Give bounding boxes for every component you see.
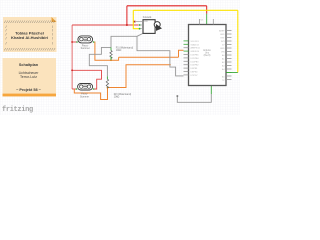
svg-text:VIN: VIN bbox=[221, 52, 225, 54]
right pin labels bbox=[219, 30, 225, 83]
svg-text:D11/PB3: D11/PB3 bbox=[191, 61, 200, 63]
IC center text bbox=[203, 49, 212, 57]
label U2 bbox=[143, 16, 152, 19]
wire red vcc drop to IC top pin bbox=[206, 6, 208, 14]
wire red stub to P1 left pin bbox=[72, 41, 77, 43]
piezo P1 bbox=[76, 36, 94, 43]
wire orange rail to IC y57.2 bbox=[119, 56, 179, 58]
left pins bbox=[184, 41, 189, 75]
junction red at 72.1,70.3 bbox=[71, 69, 73, 71]
junction orange at R2 bottom bbox=[107, 87, 109, 89]
wire yellow right vertical x237.8 bbox=[237, 10, 239, 72]
wire yellow horizontal y10.3 bbox=[133, 9, 238, 11]
junction red at 72.1,42 bbox=[71, 41, 73, 43]
svg-text:Schaltplan: Schaltplan bbox=[19, 63, 39, 67]
pin stub top 2 bbox=[212, 19, 214, 25]
piezo P2 bbox=[76, 84, 95, 91]
svg-text:SCL/D13: SCL/D13 bbox=[191, 41, 200, 43]
wire orange loop R2 bottom to P2 bbox=[74, 88, 107, 100]
wire gray staircase R1 top to R2 top bbox=[89, 47, 111, 76]
svg-text:10kΩ: 10kΩ bbox=[116, 49, 122, 52]
wire end marker bbox=[177, 95, 179, 97]
svg-text:////////////////////////: //////////////////////// bbox=[4, 48, 56, 53]
svg-text:Summer: Summer bbox=[80, 95, 89, 98]
wire gray node to R1 top bbox=[111, 36, 137, 47]
svg-text:GND/D10: GND/D10 bbox=[191, 51, 201, 53]
svg-text:GND: GND bbox=[220, 48, 225, 50]
wire orange jog up to IC pin bbox=[179, 50, 184, 57]
pin lead green IC bottom bbox=[210, 86, 212, 95]
wire orange from P1 right pin down bbox=[94, 42, 118, 60]
pin lead green IC top bbox=[206, 14, 208, 25]
svg-text:10kΩ: 10kΩ bbox=[114, 96, 120, 99]
wire yellow vertical x133.3 to sensor bbox=[133, 10, 139, 28]
svg-text:(Rev3): (Rev3) bbox=[204, 55, 211, 57]
wire green IC right pin to yellow bbox=[226, 72, 238, 74]
svg-text:D8/PB0: D8/PB0 bbox=[191, 72, 199, 74]
svg-text:fritzing: fritzing bbox=[2, 106, 33, 114]
wire red top horizontal 5V bbox=[127, 5, 207, 7]
wire red vertical x127 bbox=[126, 6, 128, 25]
wire gray IC bottom pin down-left bbox=[177, 94, 211, 102]
left pin labels bbox=[191, 41, 201, 77]
wire red horizontal y25 to sensor bbox=[72, 24, 138, 26]
wire red staircase to P2 right pin bbox=[72, 70, 101, 89]
svg-text:D9/PB1: D9/PB1 bbox=[191, 68, 199, 70]
junction red at 126.9,25 bbox=[126, 24, 128, 26]
svg-text:Terror-Lutz: Terror-Lutz bbox=[20, 75, 37, 79]
svg-text:Fotowid.: Fotowid. bbox=[143, 16, 152, 19]
note N2 (title Schaltplan) bbox=[3, 58, 57, 97]
IC U1 (Arduino) bbox=[184, 19, 232, 86]
label R1 bbox=[116, 47, 134, 53]
wire red to P2 left pin bbox=[72, 88, 76, 90]
wire orange rail y64.8 with drop at x126 bbox=[108, 65, 171, 88]
wire gray node down to IC pin (signal) bbox=[137, 36, 184, 76]
right pins bbox=[226, 31, 232, 80]
svg-text:D12/PB4: D12/PB4 bbox=[191, 58, 200, 60]
svg-text:Khaled Al-Hushibiri: Khaled Al-Hushibiri bbox=[11, 35, 48, 40]
wire gray sensor pin diagonal to node bbox=[137, 33, 143, 36]
label P2 bbox=[80, 93, 89, 99]
pin stub top 1 bbox=[198, 19, 200, 25]
svg-text:////////////////////////: //////////////////////// bbox=[4, 20, 56, 25]
junction orange at R1 bottom bbox=[110, 59, 112, 61]
label U1 bbox=[201, 19, 205, 21]
note N1 (authors) bbox=[3, 17, 57, 53]
label R2 bbox=[114, 93, 132, 99]
svg-text:~ Projekt 58 ~: ~ Projekt 58 ~ bbox=[16, 88, 41, 92]
svg-text:D13/PB5: D13/PB5 bbox=[191, 54, 200, 56]
label P1 bbox=[81, 45, 90, 51]
wire red left vertical x72 bbox=[71, 25, 73, 89]
resistor R2 bbox=[106, 76, 108, 88]
resistor R1 bbox=[110, 47, 112, 60]
svg-text:GND: GND bbox=[220, 34, 225, 36]
svg-text:D7/PD7: D7/PD7 bbox=[191, 75, 199, 77]
svg-text:Summer: Summer bbox=[81, 47, 90, 50]
sensor module U2 (LDR) bbox=[134, 20, 162, 34]
svg-text:D10/PB2: D10/PB2 bbox=[191, 65, 200, 67]
